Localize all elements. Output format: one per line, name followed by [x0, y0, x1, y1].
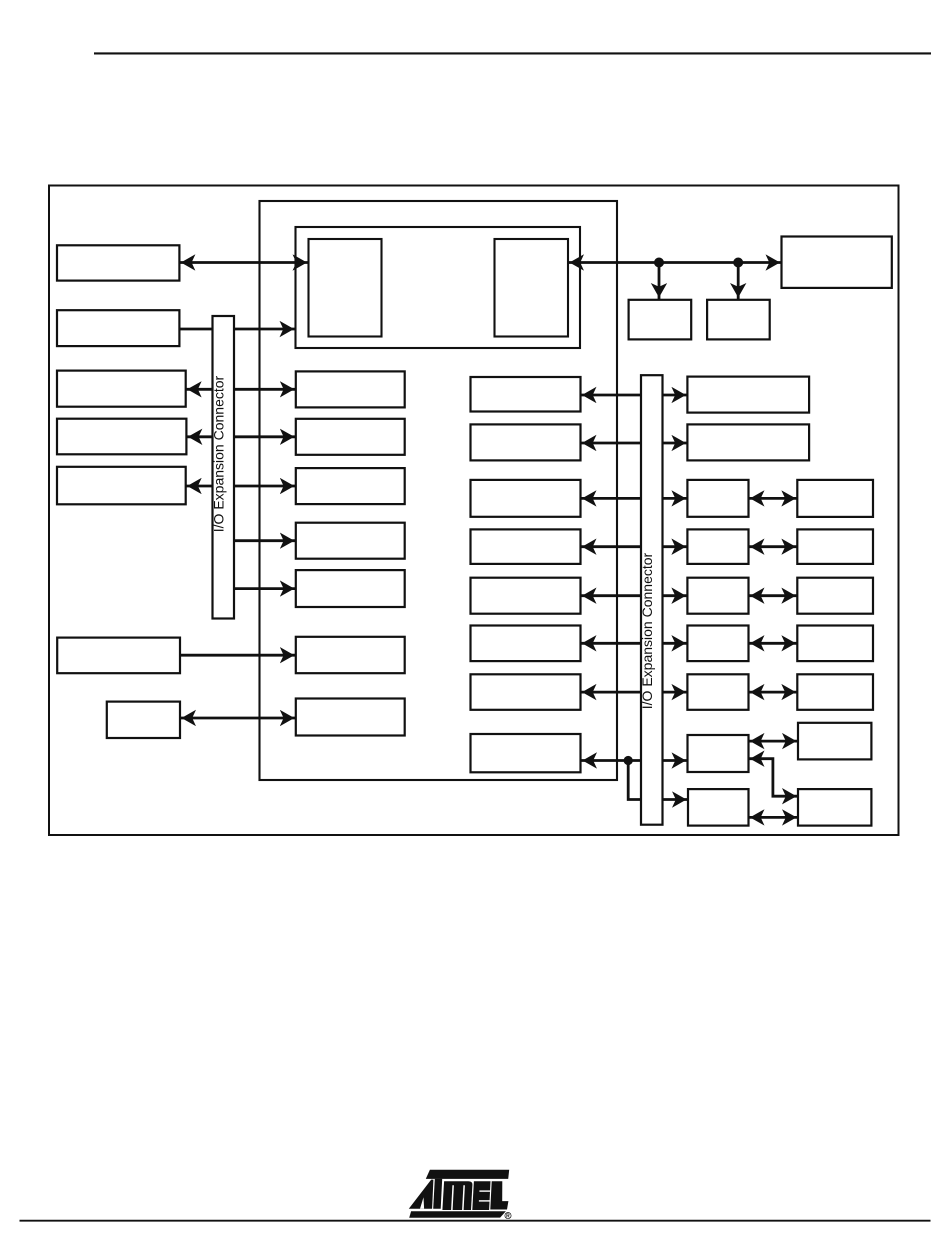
left I/O Expansion Connector bar: [213, 316, 235, 619]
box RS8: [688, 735, 749, 772]
wire R2 to RB2 (bidirectional): [581, 442, 688, 445]
box M4: [296, 523, 405, 559]
box RS9: [688, 789, 749, 826]
right I/O Expansion Connector bar: [641, 375, 663, 825]
box L4: [57, 419, 186, 455]
box R7: [471, 674, 581, 710]
wire RS5 to RF5 (bidirectional): [749, 594, 798, 597]
box RS4: [687, 529, 748, 564]
box top-right: [782, 237, 892, 288]
wire R7 to RS7 (bidirectional): [581, 691, 688, 694]
wire core to top-right box (bidirectional): [568, 261, 782, 264]
junction dot on core-to-top-right wire (SB1 tap): [654, 258, 664, 268]
core inner block right: [495, 239, 569, 337]
box M2: [296, 419, 405, 455]
wire R1 to RB1 (bidirectional): [581, 394, 688, 397]
box M6: [296, 637, 405, 673]
ATMEL logo: [409, 1170, 511, 1220]
box L2: [57, 310, 179, 346]
box SB1: [629, 300, 692, 340]
wire RS9 to RF9 (bidirectional): [749, 816, 799, 819]
box RS5: [687, 578, 748, 614]
box RF5: [797, 578, 873, 614]
wire left connector to M4: [234, 539, 296, 542]
FPSLIC device outline: [260, 201, 618, 780]
wire L1 to OSC box (bidirectional): [179, 261, 308, 264]
svg-text:I/O Expansion Connector: I/O Expansion Connector: [639, 552, 655, 709]
top header rule: [94, 52, 931, 54]
junction dot on R8 wire: [624, 756, 633, 765]
junction dot on core-to-top-right wire (SB2 tap): [733, 258, 743, 268]
wire elbow RS8 to RF9: [749, 759, 799, 797]
box RB1: [687, 377, 809, 413]
wire RS8 to RF8 (bidirectional): [749, 740, 799, 743]
wire L4 to M2 (bidirectional): [186, 435, 295, 438]
box RF3: [797, 480, 873, 517]
embedded core sub-block: [296, 227, 581, 348]
wire R6 to RS6 (bidirectional): [581, 642, 688, 645]
box RF8 (raised): [798, 723, 871, 760]
box L7: [107, 702, 180, 738]
wire R4 to RS4 (bidirectional): [581, 545, 688, 548]
wire RS6 to RF6 (bidirectional): [749, 642, 798, 645]
wire drop to small box SB1: [658, 263, 661, 300]
box R3: [471, 480, 581, 517]
box RF4: [797, 529, 873, 564]
box M5: [296, 570, 405, 607]
wire left connector to M5: [234, 587, 296, 590]
box R8: [471, 734, 581, 772]
wire L2 to clock sub-block (right arrow): [179, 328, 295, 331]
box L1: [57, 245, 179, 280]
box R1: [471, 377, 581, 412]
box R4: [471, 529, 581, 564]
box L6: [57, 638, 180, 674]
bottom footer rule: [20, 1220, 931, 1222]
wire R8 to RS8 (bidirectional): [581, 759, 688, 762]
box RF7: [797, 674, 873, 710]
wire RS4 to RF4 (bidirectional): [749, 545, 798, 548]
core inner block left: [309, 239, 382, 337]
svg-text:R: R: [506, 1213, 510, 1219]
wire L7 to M7 (bidirectional): [180, 717, 296, 720]
box RS3: [687, 480, 748, 517]
box SB2: [707, 300, 770, 340]
box L3: [57, 371, 186, 407]
box R2: [471, 424, 581, 460]
box RF6: [797, 626, 873, 662]
box L5: [57, 467, 186, 505]
box RS6: [687, 626, 748, 662]
wire RS3 to RF3 (bidirectional): [749, 497, 798, 500]
box RF9: [798, 789, 871, 826]
box RB2: [687, 424, 809, 460]
box M1: [296, 371, 405, 407]
wire R5 to RS5 (bidirectional): [581, 594, 688, 597]
svg-text:I/O Expansion Connector: I/O Expansion Connector: [211, 375, 227, 532]
wire drop to small box SB2: [737, 263, 740, 300]
box M7: [296, 699, 405, 736]
board outline: [49, 186, 899, 836]
wire R3 to RS3 (bidirectional): [581, 497, 688, 500]
wire elbow from junction down to RS9: [628, 761, 688, 800]
wire L5 to M3 (bidirectional): [186, 485, 296, 488]
box R5: [471, 578, 581, 614]
box RS7: [687, 674, 748, 710]
box R6: [471, 626, 581, 662]
wire L6 to M6: [180, 654, 296, 657]
box M3: [296, 468, 405, 504]
wire RS7 to RF7 (bidirectional): [749, 691, 798, 694]
wire L3 to M1 (bidirectional): [186, 388, 296, 391]
